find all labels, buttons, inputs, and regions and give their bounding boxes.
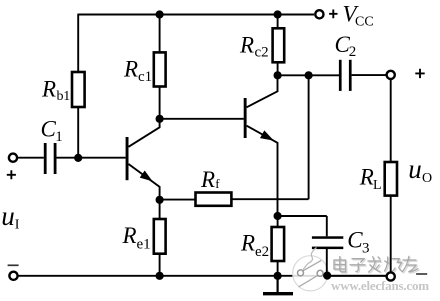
svg-text:R: R bbox=[123, 57, 138, 82]
svg-text:O: O bbox=[422, 171, 432, 186]
Q2 base bar bbox=[244, 98, 247, 138]
wire Q2 emitter to Re2 bbox=[277, 216, 279, 227]
wire bottom rail right segment over watermark bbox=[324, 275, 386, 277]
svg-text:3: 3 bbox=[362, 241, 370, 257]
label minus input bbox=[8, 264, 19, 266]
resistor Rf bbox=[196, 193, 232, 206]
Q1 collector lead bbox=[129, 119, 160, 147]
svg-text:R: R bbox=[200, 167, 215, 192]
wire Re1 to bottom rail bbox=[159, 254, 161, 276]
node Q1 emitter bbox=[156, 196, 164, 204]
resistor Rb1 bbox=[72, 72, 85, 107]
Q2 emitter arrow bbox=[260, 130, 274, 140]
svg-text:c2: c2 bbox=[255, 45, 269, 61]
wire Q2 emitter to C3 bbox=[278, 215, 327, 217]
svg-text:R: R bbox=[240, 230, 255, 255]
Q1 emitter lead bbox=[129, 164, 160, 200]
label minus output bbox=[416, 273, 427, 275]
svg-text:1: 1 bbox=[55, 129, 63, 145]
resistor Re1 bbox=[154, 219, 166, 254]
terminal input bottom bbox=[9, 272, 17, 280]
wire Rb1 branch bottom bbox=[77, 107, 79, 158]
wire Rc1 to Q1 collector node bbox=[159, 87, 161, 119]
capacitor C1 bbox=[44, 143, 57, 174]
Q2 emitter lead bbox=[247, 126, 278, 216]
ground bbox=[263, 276, 293, 294]
Q1 base bar bbox=[126, 137, 129, 180]
node Q2 collector / Rc2 bottom bbox=[274, 71, 282, 79]
capacitor C2 bbox=[339, 60, 352, 91]
wire top rail bbox=[78, 14, 314, 16]
node Q2 emitter bbox=[274, 212, 282, 220]
node top rail / Rc1 bbox=[156, 10, 164, 18]
wire Q1 emitter to Re1 bbox=[159, 200, 161, 219]
transistor Q1 bbox=[126, 119, 160, 200]
wire bottom rail bbox=[18, 275, 386, 277]
Q1 emitter arrow bbox=[140, 171, 153, 182]
node Q1 collector bbox=[156, 115, 164, 123]
resistor Rc1 bbox=[154, 52, 166, 86]
svg-text:I: I bbox=[15, 218, 20, 233]
wire C1 to Q1 base bbox=[57, 157, 126, 159]
svg-text:e2: e2 bbox=[255, 244, 269, 260]
svg-text:b1: b1 bbox=[57, 89, 71, 104]
label + input bbox=[7, 170, 16, 179]
Q2 collector lead bbox=[247, 75, 278, 107]
svg-text:C: C bbox=[41, 116, 57, 141]
node feedback junction bbox=[305, 71, 313, 79]
svg-text:e1: e1 bbox=[137, 236, 151, 252]
node Re1 bottom bbox=[156, 272, 164, 280]
wire feedback riser bbox=[308, 75, 310, 199]
svg-text:u: u bbox=[1, 201, 15, 231]
capacitor C3 bbox=[312, 236, 343, 249]
node input junction bbox=[74, 154, 82, 162]
transistor Q2 bbox=[244, 75, 278, 216]
resistor RL bbox=[385, 162, 397, 196]
wire Rc2 branch top bbox=[277, 15, 279, 29]
resistor Rc2 bbox=[273, 28, 285, 62]
terminal output top bbox=[387, 71, 395, 79]
svg-text:u: u bbox=[408, 154, 422, 184]
wire RL to output bottom terminal bbox=[390, 196, 392, 273]
svg-text:CC: CC bbox=[355, 15, 374, 30]
svg-text:C: C bbox=[347, 228, 363, 253]
terminal input top bbox=[9, 154, 17, 162]
svg-text:R: R bbox=[41, 76, 56, 101]
node ground junction bbox=[274, 272, 282, 280]
svg-text:R: R bbox=[122, 223, 137, 248]
svg-text:c1: c1 bbox=[138, 69, 152, 85]
svg-text:2: 2 bbox=[349, 44, 357, 60]
wire Rc1 branch top bbox=[159, 15, 161, 53]
wire Re2 to bottom rail bbox=[277, 261, 279, 276]
terminal output bottom bbox=[387, 272, 395, 280]
node top rail / Rc2 bbox=[274, 10, 282, 18]
wire Q1 emitter to Rf bbox=[160, 199, 196, 201]
resistor Re2 bbox=[272, 227, 285, 261]
wire input to C1 bbox=[18, 157, 44, 159]
svg-text:www.elecfans.com: www.elecfans.com bbox=[331, 278, 429, 293]
wire C3 bottom lead bbox=[326, 249, 328, 276]
wire C3 top lead bbox=[326, 216, 328, 236]
wire Rf to feedback riser bbox=[231, 198, 308, 200]
wire Rb1 branch top bbox=[77, 14, 79, 72]
terminal VCC bbox=[315, 10, 323, 18]
wire C2 to output terminal bbox=[352, 74, 387, 76]
watermark logo circle bbox=[293, 248, 328, 291]
wire output node to C2 bbox=[278, 74, 339, 76]
wire Rc2 to output node bbox=[277, 62, 279, 75]
svg-text:R: R bbox=[239, 32, 254, 57]
svg-text:f: f bbox=[215, 176, 220, 191]
svg-text:L: L bbox=[373, 178, 382, 193]
label +VCC bbox=[329, 10, 337, 19]
wire Q1 collector to Q2 base bbox=[160, 118, 244, 120]
wire output terminal to RL bbox=[390, 79, 392, 162]
svg-text:R: R bbox=[359, 165, 374, 190]
node C3 bottom bbox=[323, 272, 331, 280]
label + output bbox=[415, 69, 424, 78]
